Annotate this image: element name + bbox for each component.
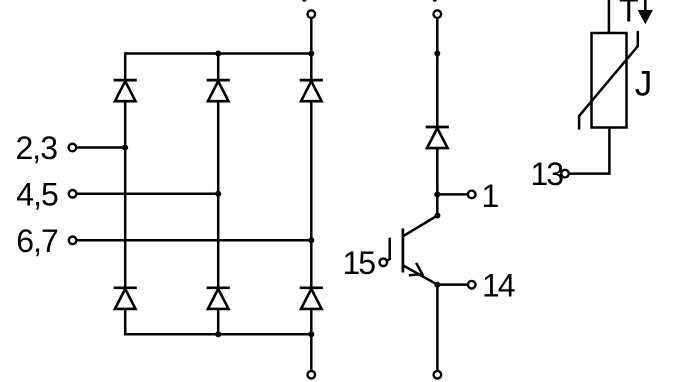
junction node 4,5 on middle leg (215, 191, 221, 197)
wire: node 1 stub (437, 193, 467, 196)
svg-text:T: T (619, 0, 638, 29)
terminal 13 circle (561, 170, 569, 178)
wire: rectifier right leg (DC+ terminal to bottom terminal) (310, 19, 313, 371)
junction node 2,3 on left leg (122, 145, 128, 151)
cropped mark above chopper terminal (433, 0, 437, 2)
junction on chopper branch (top) (434, 51, 440, 57)
wire: input 4,5 to middle leg (77, 193, 218, 196)
wire: input 6,7 to right leg (77, 239, 311, 242)
wire: thermistor top lead (608, 0, 611, 33)
terminal bottom of chopper branch (434, 371, 442, 379)
terminal top of chopper branch (434, 10, 442, 18)
diode D7 (chopper branch) (426, 127, 449, 148)
terminal 14 circle (468, 281, 476, 289)
Q1 emitter diagonal (403, 265, 438, 284)
svg-text:J: J (635, 65, 652, 104)
terminal 2,3 circle (69, 144, 77, 152)
wire: rectifier top bus, left leg, bottom bus (125, 54, 311, 335)
wire: thermistor bottom lead to 13 (569, 128, 609, 174)
svg-text:2,3: 2,3 (16, 130, 58, 166)
diode D3 (top right) (300, 80, 323, 101)
svg-text:15: 15 (343, 245, 376, 281)
wire: rectifier middle leg (217, 54, 220, 335)
wire: chopper branch vertical (436, 19, 439, 216)
junction node 1 (434, 191, 440, 197)
junction collector bend (434, 213, 440, 219)
transistor Q1 (IGBT) (386, 216, 438, 285)
terminal 6,7 circle (69, 237, 77, 245)
thermistor R1 characteristic diagonal (579, 31, 638, 130)
svg-text:13: 13 (531, 156, 564, 192)
Q1 gate bar (388, 238, 391, 260)
junction on bottom bus at right leg (308, 331, 314, 337)
junction on bottom bus at middle leg (215, 331, 221, 337)
Q1 gate link (386, 259, 390, 262)
junction on top bus at right leg (308, 51, 314, 57)
junction on top bus at middle leg (215, 51, 221, 57)
thermistor R1 body (592, 33, 627, 128)
svg-text:4,5: 4,5 (16, 176, 58, 212)
svg-text:1: 1 (482, 178, 499, 214)
svg-text:14: 14 (482, 268, 515, 304)
diode D4 (bottom left) (114, 288, 137, 309)
cropped mark above DC+ terminal (302, 0, 306, 2)
diode D1 (top left) (114, 80, 137, 101)
terminal 4,5 circle (69, 190, 77, 198)
diode D6 (bottom right) (300, 288, 323, 309)
arrow down (decreasing) (638, 0, 653, 24)
Q1 collector diagonal (403, 216, 438, 237)
terminal bottom of rectifier (308, 371, 316, 379)
junction node 6,7 on right leg (308, 237, 314, 243)
wire: input 2,3 to left leg (77, 146, 126, 149)
terminal 1 circle (468, 191, 476, 199)
terminal DC+ (top of rectifier) (308, 10, 316, 18)
Q1 body bar (402, 228, 405, 272)
wire: emitter to bottom terminal (436, 285, 439, 371)
diode D5 (bottom middle) (207, 288, 230, 309)
Q1 emitter arrowhead (409, 263, 423, 276)
junction node 14 (emitter) (434, 282, 440, 288)
svg-text:6,7: 6,7 (16, 223, 58, 259)
diode D2 (top middle) (207, 80, 230, 101)
terminal 15 circle (gate) (380, 259, 388, 267)
wire: node 14 stub (437, 283, 467, 286)
